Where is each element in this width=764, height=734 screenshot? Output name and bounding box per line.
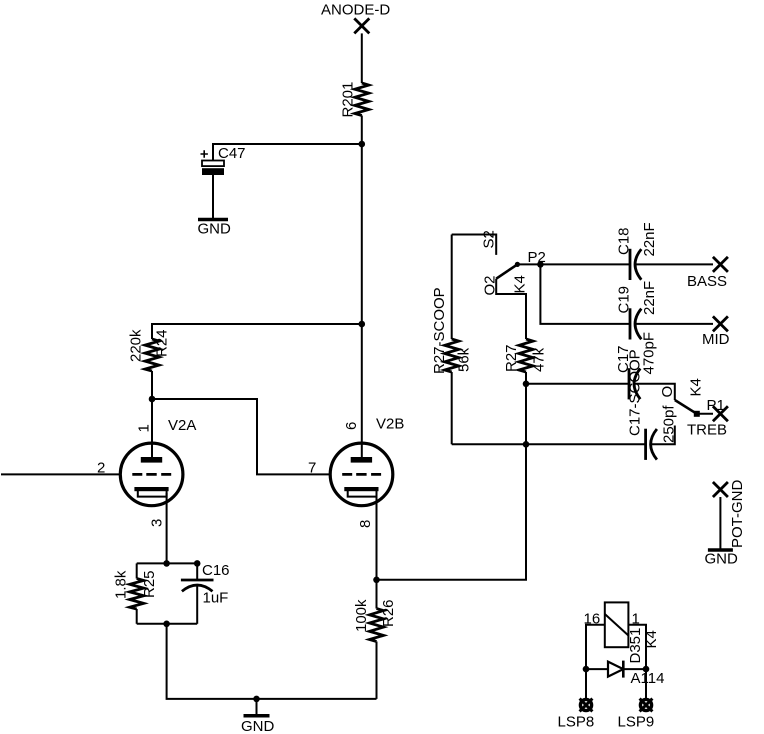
node junction — [373, 577, 380, 584]
wire — [196, 563, 198, 580]
svg-text:TREB: TREB — [687, 422, 727, 439]
svg-text:C47: C47 — [218, 145, 246, 162]
relay coil K4 — [605, 602, 629, 647]
capacitor C18 22nF — [616, 222, 659, 280]
wire pin 8 — [376, 493, 378, 580]
svg-text:C16: C16 — [202, 562, 230, 579]
node junction — [194, 560, 201, 567]
svg-text:GND: GND — [198, 221, 232, 238]
svg-text:GND: GND — [705, 551, 739, 568]
triode V2A — [120, 417, 196, 506]
wire cathode to ground rail — [167, 624, 377, 699]
wire — [645, 669, 647, 699]
svg-text:R24: R24 — [154, 329, 171, 357]
relay contact K4 blade (treble) — [675, 378, 705, 417]
svg-text:1: 1 — [136, 424, 153, 432]
wire pin 1 — [628, 625, 646, 669]
svg-text:POT-GND: POT-GND — [729, 479, 746, 548]
wire pin 3 — [166, 493, 168, 563]
wire pin 16 — [586, 625, 605, 669]
relay contact K4 blade — [496, 262, 528, 294]
svg-text:220k: 220k — [128, 329, 145, 362]
wire — [213, 144, 362, 161]
resistor R27 47k — [503, 339, 548, 372]
svg-text:1.8k: 1.8k — [113, 570, 130, 599]
wire bottom rail — [137, 623, 198, 625]
terminal LSP9 — [618, 699, 655, 731]
node junction — [163, 560, 170, 567]
terminal TREB — [687, 406, 728, 438]
wire — [196, 586, 198, 624]
node junction — [163, 621, 170, 628]
terminal LSP8 — [558, 699, 595, 731]
svg-text:22nF: 22nF — [641, 281, 658, 315]
svg-text:K4: K4 — [512, 275, 529, 293]
node junction — [643, 666, 650, 673]
node junction — [253, 696, 260, 703]
terminal MID — [702, 316, 730, 348]
svg-text:1uF: 1uF — [203, 590, 229, 607]
relay contact K4 pin S2 — [452, 230, 498, 255]
power flag ANODE-D — [321, 2, 390, 34]
capacitor C47 — [201, 145, 246, 175]
wire — [525, 384, 527, 445]
wire — [136, 609, 138, 624]
svg-text:22nF: 22nF — [641, 222, 658, 256]
svg-text:GND: GND — [241, 718, 275, 734]
svg-text:MID: MID — [702, 331, 730, 348]
svg-text:LSP8: LSP8 — [558, 714, 595, 731]
wire — [451, 372, 453, 444]
resistor R26 100k — [353, 580, 397, 699]
wire — [526, 383, 629, 385]
wire — [361, 144, 363, 324]
svg-text:LSP9: LSP9 — [618, 714, 655, 731]
svg-text:ANODE-D: ANODE-D — [321, 2, 390, 19]
node junction — [583, 666, 590, 673]
wire left rail — [451, 235, 453, 340]
svg-text:K4: K4 — [688, 378, 705, 396]
svg-text:A114: A114 — [631, 670, 665, 687]
svg-text:O: O — [659, 386, 676, 398]
svg-text:R26: R26 — [380, 599, 397, 627]
wire pin 1 — [151, 399, 153, 458]
wire — [525, 372, 527, 384]
ground GND below C47 — [198, 220, 232, 238]
svg-text:S2: S2 — [481, 230, 498, 248]
wire — [635, 384, 675, 400]
svg-text:6: 6 — [343, 422, 360, 430]
ground GND (POT-GND) — [705, 550, 739, 568]
wire — [540, 264, 630, 324]
svg-text:47k: 47k — [531, 347, 548, 372]
node junction — [523, 381, 530, 388]
svg-text:3: 3 — [149, 519, 166, 527]
terminal BASS — [687, 257, 728, 290]
wire — [361, 33, 363, 83]
node junction — [149, 396, 156, 403]
svg-text:K4: K4 — [643, 630, 660, 648]
svg-text:C18: C18 — [616, 227, 633, 255]
svg-text:V2A: V2A — [168, 417, 196, 434]
wire — [585, 669, 587, 699]
svg-text:O2: O2 — [482, 275, 499, 295]
svg-text:C17-SCOOP: C17-SCOOP — [627, 349, 644, 436]
capacitor C16 1uF — [181, 562, 230, 607]
wire — [636, 323, 713, 325]
capacitor C17-SCOOP 250pf — [627, 349, 678, 460]
svg-text:R25: R25 — [141, 570, 158, 598]
relay contact K4 pole P1 — [697, 397, 725, 414]
svg-text:BASS: BASS — [687, 273, 727, 290]
resistor R27-SCOOP 56k — [431, 287, 473, 374]
wire bottom rail — [452, 443, 646, 445]
svg-text:D351: D351 — [627, 628, 644, 664]
svg-text:100k: 100k — [353, 599, 370, 632]
resistor R201 — [340, 82, 369, 118]
svg-text:R27: R27 — [503, 344, 520, 372]
node junction — [359, 141, 366, 148]
diode D351 A114 — [608, 628, 664, 687]
wire to tone stack — [377, 444, 527, 580]
capacitor C19 22nF — [616, 281, 659, 340]
wire — [586, 668, 646, 670]
wire — [719, 497, 721, 549]
wire — [361, 116, 363, 145]
svg-text:8: 8 — [357, 520, 374, 528]
wire — [136, 563, 138, 578]
capacitor C17 470pF — [615, 332, 658, 399]
relay contact K4 pole P2 — [517, 249, 545, 268]
wire — [151, 371, 153, 399]
svg-text:R201: R201 — [340, 82, 357, 118]
wire pin 6 — [361, 324, 363, 458]
resistor R24 220k — [128, 329, 171, 371]
svg-text:R27-SCOOP: R27-SCOOP — [431, 287, 448, 374]
wire — [540, 263, 630, 265]
ground GND bottom — [241, 699, 275, 734]
wire — [636, 263, 713, 265]
wire top rail — [137, 562, 198, 564]
wire — [212, 175, 214, 218]
node junction — [523, 441, 530, 448]
svg-text:56k: 56k — [456, 347, 473, 372]
triode V2B — [330, 416, 404, 506]
svg-text:V2B: V2B — [376, 416, 404, 433]
relay contact K4 pin O2 — [482, 275, 527, 339]
wire relay contact K4 pin S1 — [652, 426, 675, 445]
wire to V2B grid — [152, 399, 331, 474]
node junction — [359, 321, 366, 328]
wire input — [1, 473, 120, 475]
wire — [152, 324, 362, 339]
svg-text:C19: C19 — [616, 286, 633, 314]
terminal POT-GND — [713, 479, 746, 548]
resistor R25 1.8k — [113, 570, 159, 609]
svg-text:7: 7 — [308, 460, 316, 477]
